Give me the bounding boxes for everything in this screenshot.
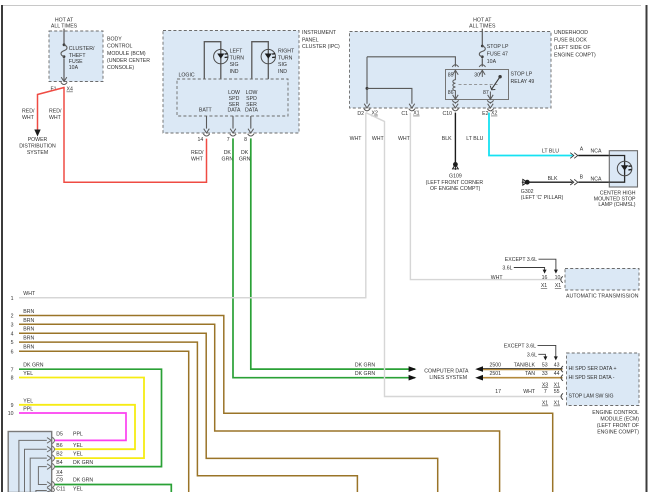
wire left turn indicator loop xyxy=(204,42,221,79)
svg-text:X2: X2 xyxy=(491,111,497,117)
pin 8 connector at IPC xyxy=(244,116,254,143)
node HOT AT ALL TIMES (fuse block feed) xyxy=(469,17,496,29)
svg-text:43: 43 xyxy=(554,362,560,368)
svg-text:BATT: BATT xyxy=(199,108,213,114)
svg-text:BRN: BRN xyxy=(23,345,34,351)
svg-text:14: 14 xyxy=(198,137,204,143)
svg-text:3: 3 xyxy=(11,322,14,328)
pin 14 connector at IPC xyxy=(198,116,210,143)
svg-text:D2: D2 xyxy=(357,111,364,117)
svg-text:WHT: WHT xyxy=(49,115,62,121)
fuse CLUSTER/THEFT FUSE 10A xyxy=(61,43,95,71)
pin C9 connector xyxy=(47,478,93,488)
wire fuse to relay pin 30 xyxy=(481,58,483,66)
svg-text:(LEFT FRONT OF: (LEFT FRONT OF xyxy=(597,423,639,429)
ground G109 xyxy=(452,162,458,170)
svg-text:DATA: DATA xyxy=(245,108,259,114)
svg-text:X1: X1 xyxy=(542,401,548,407)
svg-text:YEL: YEL xyxy=(23,371,33,377)
svg-text:HOT AT: HOT AT xyxy=(473,17,492,23)
connector D2/X2 at fuse block bottom xyxy=(357,104,378,118)
label IPC xyxy=(302,30,340,50)
svg-text:10: 10 xyxy=(8,411,14,417)
svg-text:3.6L: 3.6L xyxy=(527,352,537,358)
label 3.6L (AT) xyxy=(502,266,546,274)
svg-text:2501: 2501 xyxy=(489,371,501,377)
svg-text:X1: X1 xyxy=(555,283,561,289)
wire RED/WHT branch to power distribution xyxy=(38,88,64,130)
wire WHT C1 to automatic transmission xyxy=(410,113,561,280)
svg-text:C9: C9 xyxy=(56,478,63,484)
internal wire to B6 xyxy=(25,449,47,492)
internal wire to C11 xyxy=(36,491,47,492)
svg-text:GRN: GRN xyxy=(222,157,234,163)
svg-text:X1: X1 xyxy=(554,401,560,407)
label G109 xyxy=(426,173,484,192)
fuse STOP LP FUSE 47 10A xyxy=(479,44,509,65)
node HOT AT ALL TIMES (BCM feed) xyxy=(51,17,78,29)
svg-text:10A: 10A xyxy=(69,65,79,71)
pins 7 55 at ECM xyxy=(544,389,560,395)
relay coil xyxy=(453,70,456,95)
label LEFT TURN SIG IND xyxy=(230,49,245,75)
label EXCEPT 3.6L (AT) xyxy=(505,257,558,274)
bottom left connector box xyxy=(8,432,52,492)
label BCM xyxy=(107,37,150,72)
connector C10 at fuse block bottom xyxy=(442,104,458,118)
label DK GRN (pin 8 wire) xyxy=(239,150,251,163)
svg-text:5: 5 xyxy=(11,340,14,346)
svg-text:X1: X1 xyxy=(541,283,547,289)
indicator lamp RIGHT TURN SIG IND xyxy=(261,49,275,63)
ground G302 xyxy=(522,179,530,185)
svg-text:7: 7 xyxy=(544,389,547,395)
relay switch contact 30 xyxy=(498,75,501,78)
svg-text:A: A xyxy=(580,147,584,153)
svg-text:53: 53 xyxy=(542,362,548,368)
svg-text:STOP LP: STOP LP xyxy=(487,44,509,50)
svg-text:C11: C11 xyxy=(56,487,65,492)
svg-text:POWER: POWER xyxy=(28,137,48,143)
svg-text:EXCEPT 3.6L: EXCEPT 3.6L xyxy=(504,343,536,349)
svg-text:LEFT: LEFT xyxy=(230,49,244,55)
svg-text:TURN: TURN xyxy=(278,55,293,61)
svg-text:DK GRN: DK GRN xyxy=(355,371,375,377)
label LOW SPD SER DATA (pin 8) xyxy=(245,90,259,114)
svg-text:(UNDER CENTER: (UNDER CENTER xyxy=(107,58,150,64)
svg-text:MODULE (BCM): MODULE (BCM) xyxy=(107,51,146,57)
svg-text:(LEFT SIDE OF: (LEFT SIDE OF xyxy=(554,45,591,51)
svg-text:HOT AT: HOT AT xyxy=(55,17,74,23)
svg-text:B6: B6 xyxy=(56,443,62,449)
wire relay 86 to C10 xyxy=(454,102,456,105)
svg-text:SYSTEM: SYSTEM xyxy=(27,150,48,156)
pin cup HI SPD SER DATA - xyxy=(561,375,563,381)
border frame left xyxy=(1,5,3,492)
svg-text:BLK: BLK xyxy=(442,136,452,142)
pin B2 connector xyxy=(47,451,83,461)
label CENTER HIGH MOUNTED STOP LAMP (CHMSL) xyxy=(594,191,636,208)
svg-text:YEL: YEL xyxy=(23,398,33,404)
pin 30 connector at relay top xyxy=(474,65,485,79)
svg-text:AUTOMATIC TRANSMISSION: AUTOMATIC TRANSMISSION xyxy=(566,293,639,299)
svg-text:RED/: RED/ xyxy=(49,108,62,114)
pin B4 connector xyxy=(47,460,93,470)
pin 85 connector at relay top xyxy=(448,65,459,79)
svg-text:(LEFT FRONT CORNER: (LEFT FRONT CORNER xyxy=(426,180,484,186)
wire label RED/WHT (left branch) xyxy=(22,108,35,121)
connector X1 X1 at ECM xyxy=(542,401,560,407)
svg-text:7: 7 xyxy=(11,367,14,373)
svg-text:10A: 10A xyxy=(487,59,497,65)
pin D5 connector xyxy=(47,431,83,443)
svg-text:CLUSTER (IPC): CLUSTER (IPC) xyxy=(302,44,340,50)
svg-text:(LEFT 'C' PILLAR): (LEFT 'C' PILLAR) xyxy=(521,195,564,201)
svg-text:DATA: DATA xyxy=(227,108,241,114)
CHMSL box xyxy=(609,151,637,187)
pins 33 44 at ECM xyxy=(542,371,560,377)
svg-text:44: 44 xyxy=(554,371,560,377)
arrow DK GRN to computer data lines (upper) xyxy=(409,366,417,372)
junction dot xyxy=(366,87,369,90)
wire DK GRN pin 7 to computer data lines xyxy=(233,138,415,377)
wire fuse to BCM pin xyxy=(63,58,65,81)
svg-text:DK: DK xyxy=(224,150,232,156)
label 2500 TAN/BLK xyxy=(489,362,535,368)
svg-text:PPL: PPL xyxy=(23,407,33,413)
wire 1 WHT label xyxy=(11,291,36,302)
label DK GRN (pin 7 wire) xyxy=(222,150,234,163)
svg-text:30: 30 xyxy=(474,73,480,79)
wire 1 WHT line xyxy=(19,297,366,299)
ECM box xyxy=(567,353,640,406)
body control module BCM box xyxy=(49,31,103,82)
svg-text:EXCEPT 3.6L: EXCEPT 3.6L xyxy=(505,257,537,263)
svg-text:B: B xyxy=(580,175,584,181)
svg-text:COMPUTER DATA: COMPUTER DATA xyxy=(424,369,469,375)
svg-text:RED/: RED/ xyxy=(191,150,204,156)
wire label RED/WHT (main) xyxy=(49,108,62,121)
svg-text:RIGHT: RIGHT xyxy=(278,49,295,55)
wire fuse block internal to relay pin 85 xyxy=(367,57,455,67)
node POWER DISTRIBUTION SYSTEM xyxy=(19,137,56,156)
svg-text:NCA: NCA xyxy=(591,149,602,155)
node COMPUTER DATA LINES SYSTEM xyxy=(424,369,469,382)
svg-text:X4: X4 xyxy=(67,87,73,93)
svg-text:B4: B4 xyxy=(56,460,62,466)
svg-text:ENGINE COMPT): ENGINE COMPT) xyxy=(554,52,596,58)
label RIGHT TURN SIG IND xyxy=(278,49,295,75)
svg-text:WHT: WHT xyxy=(523,389,536,395)
wire RED/WHT BCM to IPC BATT pin 14 xyxy=(64,87,207,182)
svg-text:TAN: TAN xyxy=(525,371,535,377)
svg-text:BRN: BRN xyxy=(23,336,34,342)
svg-text:4: 4 xyxy=(11,331,14,337)
label STOP LP RELAY 49 xyxy=(511,72,535,86)
pin F1/X4 connector at BCM xyxy=(50,77,73,92)
svg-text:33: 33 xyxy=(542,371,548,377)
svg-text:WHT: WHT xyxy=(350,136,363,142)
instrument panel cluster IPC box xyxy=(163,31,299,134)
indicator lamp LEFT TURN SIG IND xyxy=(214,49,228,63)
svg-text:TURN: TURN xyxy=(230,55,245,61)
svg-text:GRN: GRN xyxy=(239,157,251,163)
svg-text:WHT: WHT xyxy=(23,291,36,297)
svg-text:E2: E2 xyxy=(482,111,488,117)
svg-text:HI SPD SER DATA -: HI SPD SER DATA - xyxy=(569,375,615,381)
wire 6 BRN xyxy=(11,345,189,492)
svg-text:9: 9 xyxy=(11,403,14,409)
wire WHT D2 branch to ECM circuit 17 xyxy=(366,113,563,397)
svg-text:LT BLU: LT BLU xyxy=(466,136,483,142)
svg-text:OF ENGINE COMPT): OF ENGINE COMPT) xyxy=(430,186,481,192)
svg-text:1: 1 xyxy=(11,296,14,302)
wire C9 DK GRN to page bottom xyxy=(55,485,172,492)
wire supply into fuse 47 xyxy=(481,29,483,46)
inline connector B xyxy=(570,175,583,185)
arrow to POWER DISTRIBUTION SYSTEM xyxy=(34,130,40,137)
relay switch arm to 87 xyxy=(490,77,500,90)
svg-text:WHT: WHT xyxy=(372,136,385,142)
svg-text:BRN: BRN xyxy=(23,327,34,333)
svg-text:6: 6 xyxy=(11,349,14,355)
wire LT BLU E2 to CHMSL xyxy=(489,113,573,156)
svg-text:D5: D5 xyxy=(56,431,63,437)
arrow DK GRN to computer data lines (lower) xyxy=(409,375,417,381)
label 17 WHT xyxy=(495,389,536,395)
wire 2 BRN xyxy=(11,309,553,492)
connector X1 X1 at AT xyxy=(541,283,561,289)
label G302 xyxy=(521,189,564,201)
svg-text:WHT: WHT xyxy=(398,136,411,142)
wire NCA B to lamp xyxy=(578,181,618,183)
wire BLK C10 to ground xyxy=(454,113,456,163)
svg-text:DK: DK xyxy=(241,150,249,156)
wire DK GRN pin 8 to computer data lines xyxy=(251,138,415,369)
wire 8 YEL xyxy=(11,371,144,458)
svg-text:LOGIC: LOGIC xyxy=(179,72,195,78)
svg-text:C1: C1 xyxy=(401,111,408,117)
svg-text:THEFT: THEFT xyxy=(69,53,87,59)
logic box inside IPC xyxy=(177,79,288,116)
svg-text:55: 55 xyxy=(554,389,560,395)
svg-text:FUSE 47: FUSE 47 xyxy=(487,52,508,58)
svg-text:DK GRN: DK GRN xyxy=(23,363,43,369)
svg-text:BRN: BRN xyxy=(23,309,34,315)
border frame right xyxy=(646,5,648,492)
label 2501 TAN xyxy=(489,371,535,377)
internal wire to B2 xyxy=(30,458,47,492)
pin 87 connector at relay bottom xyxy=(487,92,493,103)
svg-text:LINES SYSTEM: LINES SYSTEM xyxy=(429,375,467,381)
svg-text:SIG: SIG xyxy=(230,62,239,68)
label LOW SPD SER DATA (pin 7) xyxy=(227,90,241,114)
svg-text:CLUSTER/: CLUSTER/ xyxy=(69,46,95,52)
wire BLK G302 to connector B xyxy=(529,181,572,183)
svg-text:8: 8 xyxy=(11,376,14,382)
wire 3 BRN xyxy=(11,318,500,492)
svg-text:PANEL: PANEL xyxy=(302,37,319,43)
svg-text:10: 10 xyxy=(555,275,561,281)
svg-text:CONTROL: CONTROL xyxy=(107,44,132,50)
label ENGINE CONTROL MODULE (ECM) xyxy=(592,410,639,436)
svg-text:YEL: YEL xyxy=(73,451,83,457)
svg-text:STOP LP: STOP LP xyxy=(511,72,533,78)
svg-text:IND: IND xyxy=(278,69,287,75)
svg-text:UNDERHOOD: UNDERHOOD xyxy=(554,30,588,36)
wire 2501 TAN xyxy=(475,375,562,381)
wire 7 DK GRN xyxy=(11,363,162,467)
svg-text:DK GRN: DK GRN xyxy=(73,460,93,466)
svg-text:3.6L: 3.6L xyxy=(502,266,512,272)
svg-text:MODULE (ECM): MODULE (ECM) xyxy=(600,417,639,423)
inline connector A xyxy=(570,147,584,159)
svg-text:7: 7 xyxy=(227,137,230,143)
pin cup STOP LAM SW SIG xyxy=(561,393,563,399)
svg-text:WHT: WHT xyxy=(191,157,204,163)
pin 86 connector at relay bottom xyxy=(452,95,458,103)
label underhood fuse block xyxy=(554,30,596,59)
connector E2/X2 at fuse block bottom xyxy=(482,104,497,117)
wire BCM supply xyxy=(63,29,65,44)
relay mechanical link (dashed) xyxy=(459,84,498,86)
svg-text:ENGINE COMPT): ENGINE COMPT) xyxy=(597,430,639,436)
svg-text:ENGINE CONTROL: ENGINE CONTROL xyxy=(592,410,639,416)
svg-text:WHT: WHT xyxy=(491,275,504,281)
svg-text:16: 16 xyxy=(542,275,548,281)
border frame top xyxy=(3,5,641,7)
svg-text:RELAY 49: RELAY 49 xyxy=(511,79,535,85)
internal wire to D5 xyxy=(19,440,47,492)
svg-text:NCA: NCA xyxy=(591,176,602,182)
wire fuse block internal left leg to D2 xyxy=(366,57,368,104)
svg-text:85: 85 xyxy=(448,73,454,79)
svg-text:BLK: BLK xyxy=(548,176,558,182)
connector X3 X1 at ECM xyxy=(542,382,560,388)
svg-text:CONSOLE): CONSOLE) xyxy=(107,65,134,71)
svg-text:DISTRIBUTION: DISTRIBUTION xyxy=(19,144,56,150)
svg-text:C10: C10 xyxy=(442,111,452,117)
svg-text:LT BLU: LT BLU xyxy=(542,149,559,155)
svg-text:WHT: WHT xyxy=(22,115,35,121)
wire label RED/WHT (pin 14) xyxy=(191,150,204,163)
svg-text:B2: B2 xyxy=(56,451,62,457)
svg-text:IND: IND xyxy=(230,69,239,75)
svg-text:BRN: BRN xyxy=(23,318,34,324)
svg-text:17: 17 xyxy=(495,389,501,395)
underhood fuse block box xyxy=(350,32,552,109)
svg-text:YEL: YEL xyxy=(73,443,83,449)
automatic transmission box xyxy=(565,269,639,291)
svg-text:TAN/BLK: TAN/BLK xyxy=(514,362,536,368)
wire WHT D2 to numbered wire 1 xyxy=(19,113,366,298)
svg-text:FUSE BLOCK: FUSE BLOCK xyxy=(554,37,587,43)
wire 10 PPL xyxy=(8,407,126,441)
svg-text:BODY: BODY xyxy=(107,37,122,43)
pins 53 43 at ECM xyxy=(542,362,560,368)
svg-text:2500: 2500 xyxy=(489,362,501,368)
wire CHMSL internal xyxy=(609,156,624,183)
label 3.6L (ECM) xyxy=(527,352,548,360)
pin cup HI SPD SER DATA + xyxy=(561,366,563,372)
svg-text:DK GRN: DK GRN xyxy=(73,478,93,484)
svg-text:RED/: RED/ xyxy=(22,108,35,114)
relay box STOP LP RELAY 49 xyxy=(446,70,509,100)
pin cup at AT xyxy=(561,276,563,282)
svg-text:G109: G109 xyxy=(449,173,462,179)
pin B6 connector xyxy=(47,443,83,453)
wire fuse block internal branch to C1 xyxy=(367,88,412,103)
wire 9 YEL xyxy=(11,398,135,449)
svg-text:SIG: SIG xyxy=(278,62,287,68)
svg-text:8: 8 xyxy=(244,137,247,143)
label EXCEPT 3.6L (ECM) xyxy=(504,343,558,360)
pin 7 connector at IPC xyxy=(227,116,236,143)
connector C1/X1 at fuse block bottom xyxy=(401,104,419,118)
wire 5 BRN xyxy=(11,336,358,492)
wire right turn indicator loop xyxy=(252,42,268,79)
svg-text:HI SPD SER DATA +: HI SPD SER DATA + xyxy=(569,366,617,372)
wire 4 BRN xyxy=(11,327,438,492)
internal jumper B4 to C9 xyxy=(38,467,46,485)
svg-text:YEL: YEL xyxy=(73,487,83,492)
svg-text:X3: X3 xyxy=(542,382,548,388)
wire relay 87 to E2 xyxy=(489,102,491,105)
svg-text:X1: X1 xyxy=(554,382,560,388)
svg-text:LAMP (CHMSL): LAMP (CHMSL) xyxy=(598,202,635,208)
svg-text:X4: X4 xyxy=(56,470,62,476)
svg-text:PPL: PPL xyxy=(73,431,83,437)
pin C11 connector xyxy=(47,487,83,492)
svg-text:STOP LAM SW SIG: STOP LAM SW SIG xyxy=(569,394,614,400)
svg-text:DK GRN: DK GRN xyxy=(355,362,375,368)
svg-text:X1: X1 xyxy=(413,111,419,117)
wire 2500 TAN/BLK xyxy=(475,366,562,372)
wire NCA A to lamp xyxy=(578,155,618,157)
lamp CHMSL xyxy=(617,161,632,176)
svg-text:INSTRUMENT: INSTRUMENT xyxy=(302,30,337,36)
svg-text:2: 2 xyxy=(11,314,14,320)
